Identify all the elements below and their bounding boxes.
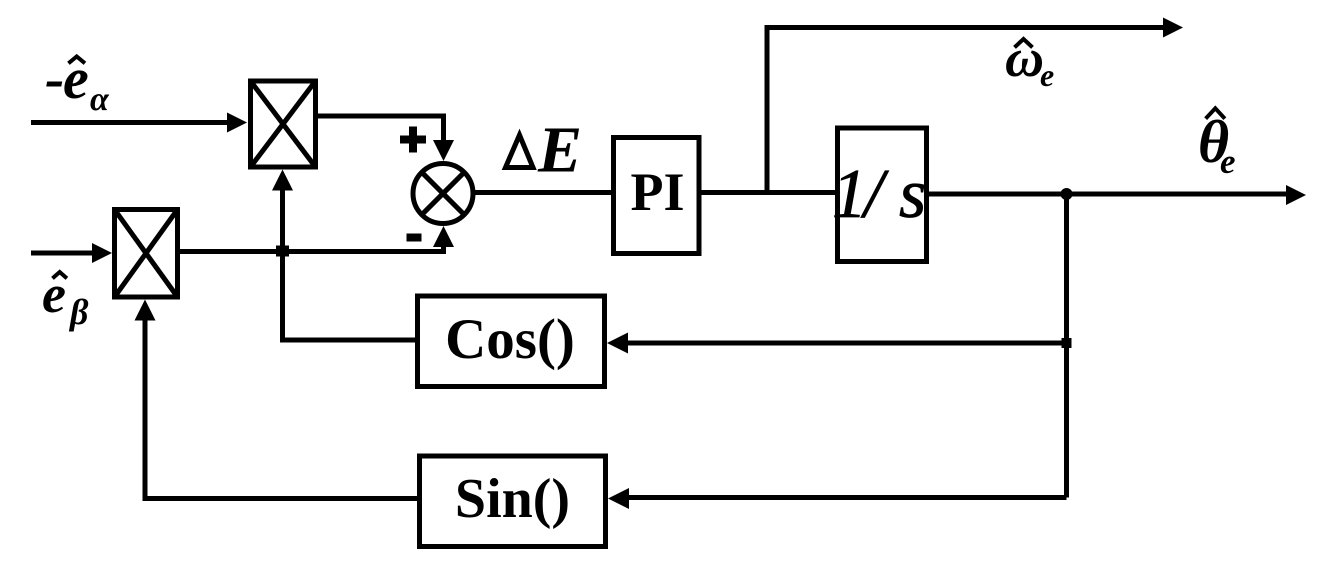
svg-text:Sin(): Sin() [455, 468, 570, 530]
svg-text:ω: ω [1005, 28, 1044, 88]
svg-text:E: E [537, 114, 582, 187]
svg-text:e: e [1040, 57, 1054, 93]
svg-text:e: e [1220, 142, 1236, 181]
svg-text:Cos(): Cos() [445, 308, 575, 371]
svg-text:1: 1 [832, 156, 867, 233]
svg-text:s: s [899, 156, 926, 233]
svg-text:-: - [45, 46, 64, 111]
svg-text:β: β [68, 292, 89, 332]
svg-text:PI: PI [631, 162, 685, 222]
svg-text:α: α [90, 81, 110, 118]
